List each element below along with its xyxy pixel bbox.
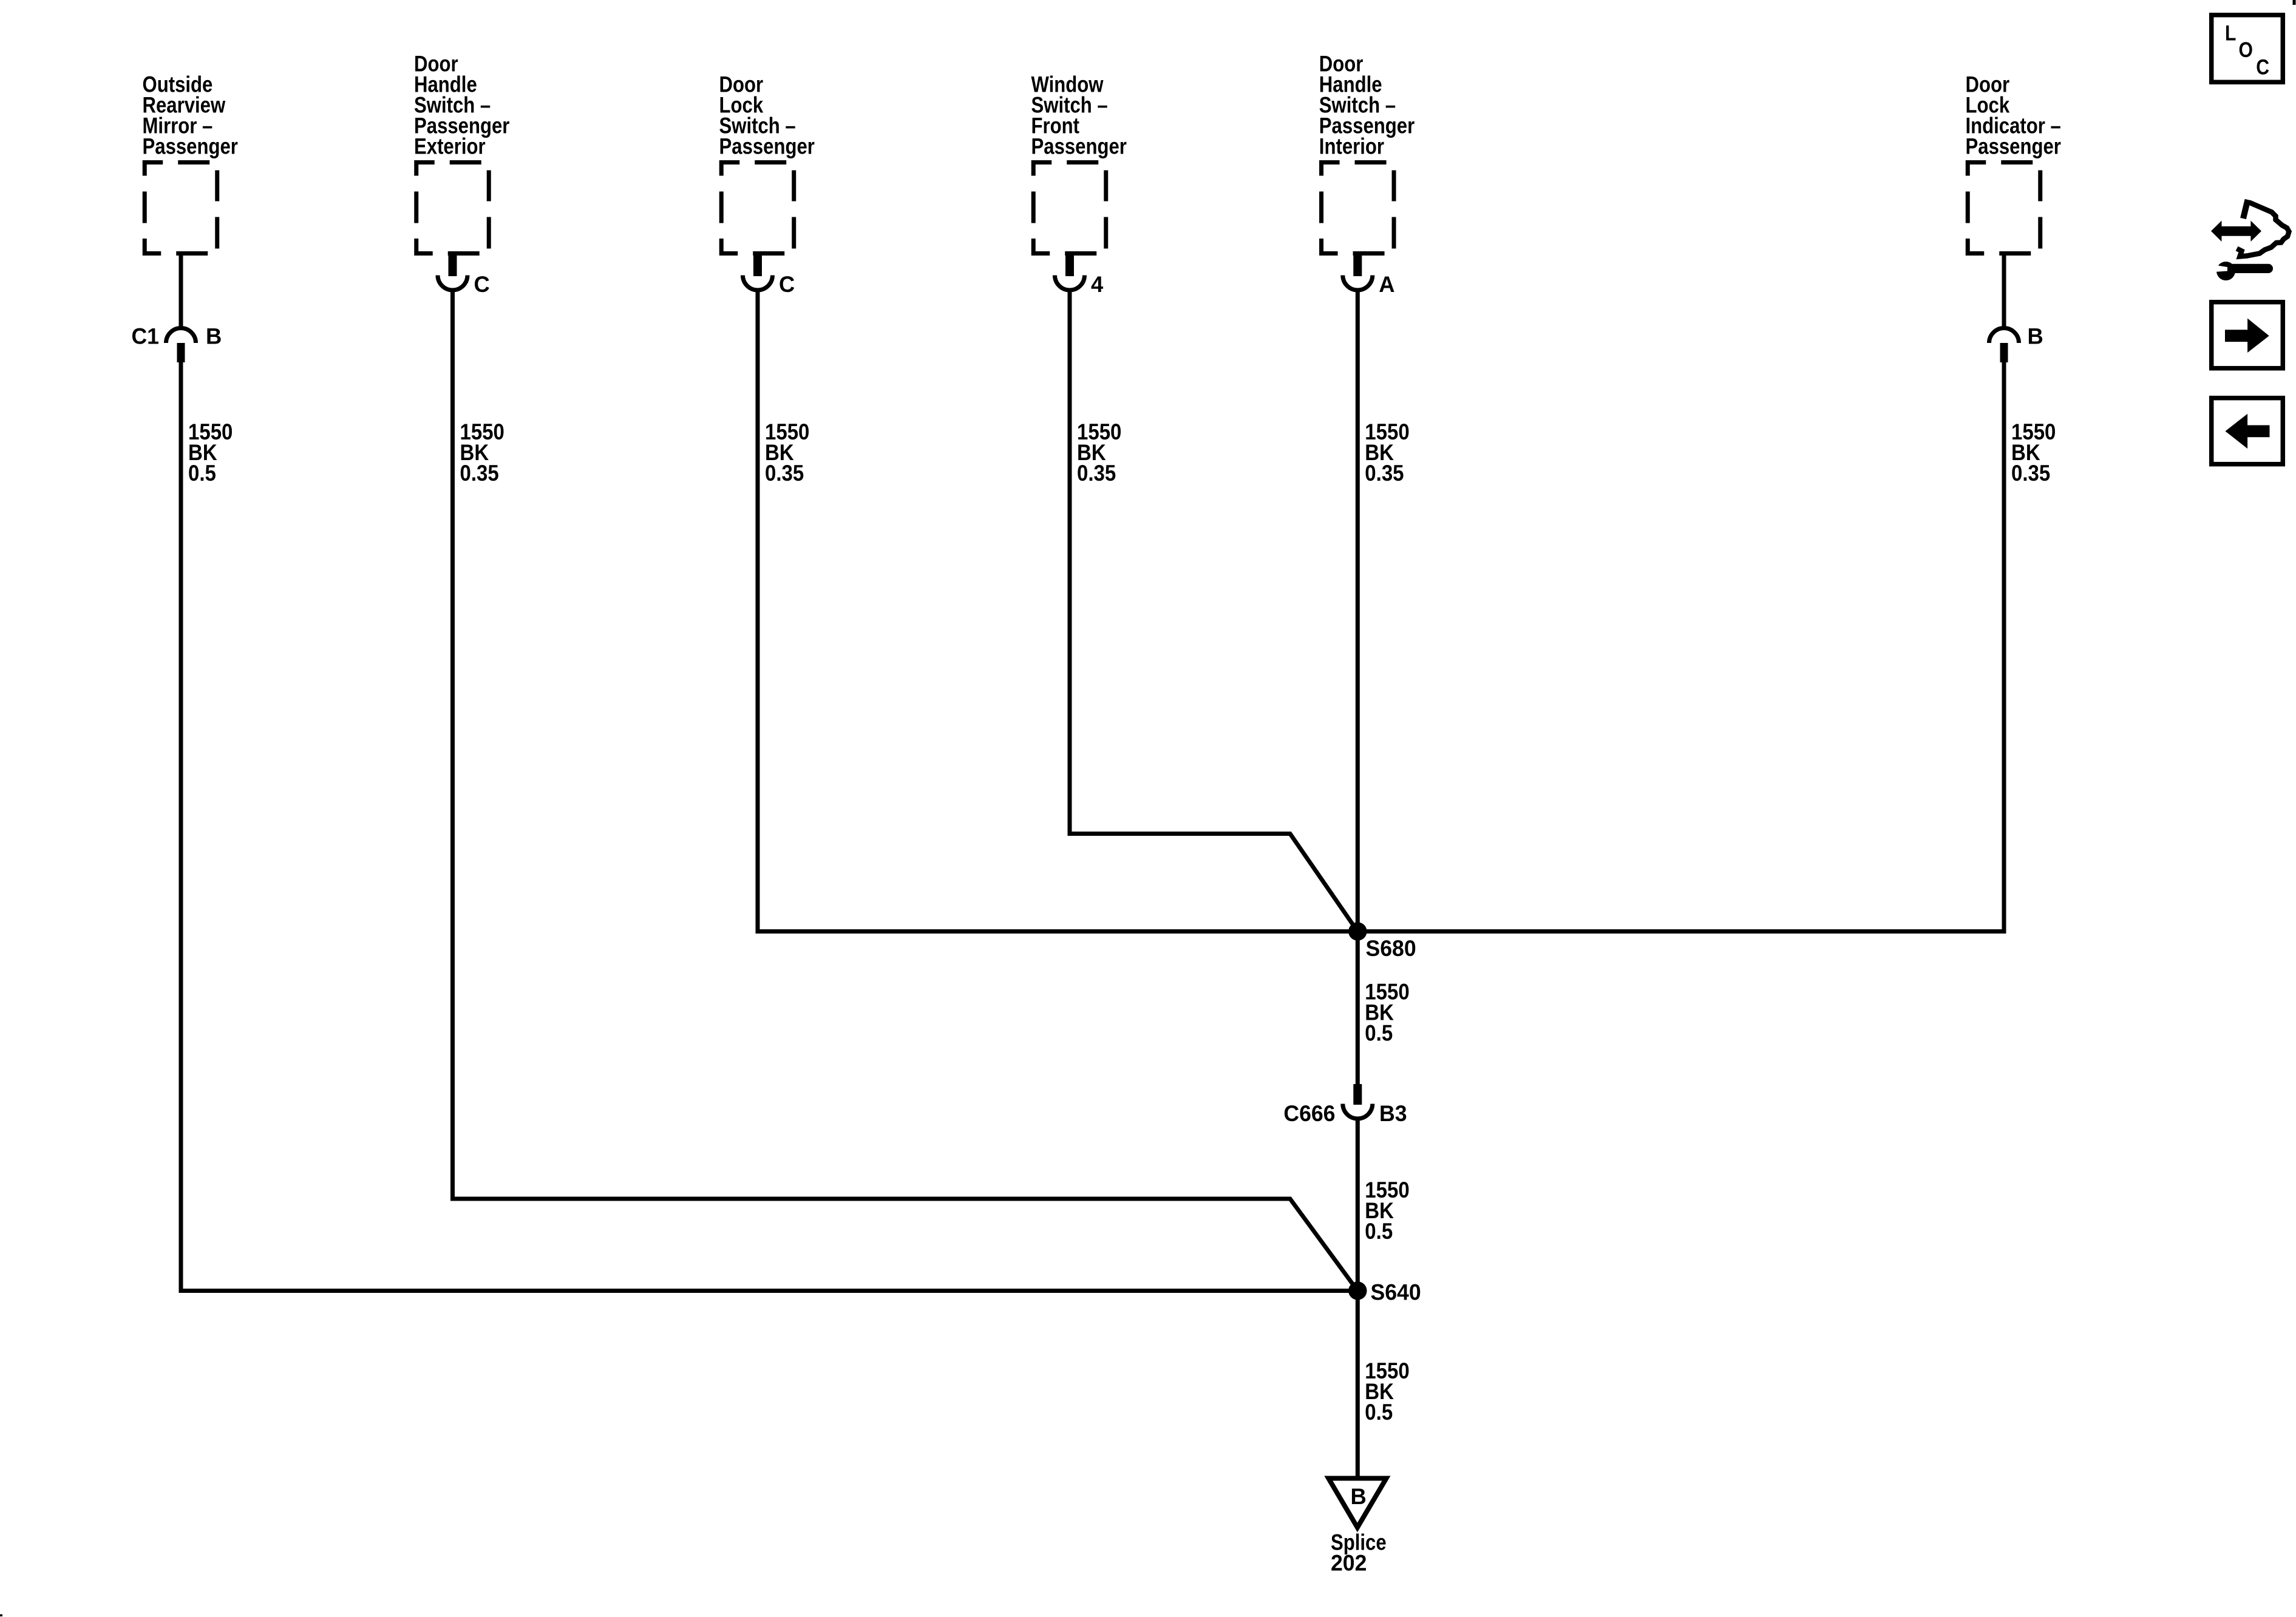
icon: connector test tool (double arrow, connector outline, wrench) <box>2211 200 2289 280</box>
connector label C1 <box>131 324 159 349</box>
icon: back arrow box <box>2212 398 2283 464</box>
svg-text:Interior: Interior <box>1319 134 1384 159</box>
icon: LOC box <box>2212 15 2283 83</box>
component box: Door Handle Switch - Passenger Exterior <box>416 163 489 254</box>
pin label C <box>779 272 795 297</box>
wire label 1550 BK 0.35 <box>2011 419 2056 444</box>
svg-text:4: 4 <box>1091 272 1104 297</box>
svg-text:C: C <box>474 272 490 297</box>
in-line connector C1 pin B (mirror) <box>166 328 196 363</box>
splice 202 triangle symbol pin B <box>1328 1479 1386 1528</box>
wire label 1550 BK 0.5 <box>1365 1178 1409 1202</box>
svg-text:B: B <box>1351 1483 1367 1509</box>
page corner mark bottom-left <box>0 1615 2 1617</box>
component box: Outside Rearview Mirror - Passenger <box>144 163 217 254</box>
svg-text:C666: C666 <box>1283 1100 1335 1126</box>
in-line connector pin B (indicator) <box>1989 328 2019 363</box>
svg-text:0.5: 0.5 <box>188 461 216 486</box>
wire: S640 down to splice triangle <box>1356 1291 1360 1476</box>
wire: S680 down to C666 <box>1356 932 1360 1085</box>
svg-text:0.5: 0.5 <box>1365 1400 1393 1425</box>
svg-text:0.35: 0.35 <box>460 461 499 486</box>
wire: indicator box to connector B <box>2002 254 2006 328</box>
svg-text:0.5: 0.5 <box>1365 1219 1393 1244</box>
pin label B3 <box>1379 1100 1407 1126</box>
wire: col2 vertical, corner, horizontal, diagonal into S640 <box>453 290 1358 1291</box>
label: Outside Rearview Mirror - Passenger <box>143 72 213 97</box>
svg-text:B: B <box>206 324 222 349</box>
label: Door Handle Switch - Passenger Exterior <box>414 52 458 76</box>
pin label B <box>206 324 222 349</box>
label S640 <box>1371 1280 1421 1305</box>
component box: Door Lock Switch - Passenger <box>721 163 794 254</box>
svg-text:B3: B3 <box>1379 1100 1407 1126</box>
connector label C666 <box>1283 1100 1335 1126</box>
connector pin C (Door Lock Switch) <box>743 252 773 291</box>
svg-text:C1: C1 <box>131 324 159 349</box>
svg-text:0.35: 0.35 <box>1365 461 1404 486</box>
component box: Door Lock Indicator - Passenger <box>1968 163 2040 254</box>
wire label 1550 BK 0.35 <box>765 419 809 444</box>
svg-text:S640: S640 <box>1371 1280 1421 1305</box>
wire: C666 down to S640 <box>1356 1119 1360 1291</box>
label: Door Lock Switch - Passenger <box>719 72 764 97</box>
wire: col3 vertical, corner, S680 horizontal across to col6 corner, col6 vertical <box>758 290 2004 932</box>
wire: mirror box to connector C1-B <box>179 254 183 328</box>
wire: col5 vertical into S680 <box>1356 290 1360 932</box>
connector pin 4 (Window Switch) <box>1055 252 1085 291</box>
label: Door Handle Switch - Passenger Interior <box>1319 52 1364 76</box>
svg-text:0.35: 0.35 <box>765 461 804 486</box>
svg-text:S680: S680 <box>1366 935 1416 961</box>
wire label 1550 BK 0.5 <box>1365 1358 1409 1383</box>
label S680 <box>1366 935 1416 961</box>
wire label 1550 BK 0.35 <box>460 419 504 444</box>
label Splice 202 <box>1331 1530 1387 1555</box>
wire: col4 vertical, corner, horizontal, diagonal into S680 <box>1070 290 1357 932</box>
svg-text:202: 202 <box>1331 1550 1367 1576</box>
label: Window Switch - Front Passenger <box>1031 72 1104 97</box>
svg-text:0.5: 0.5 <box>1365 1021 1393 1046</box>
svg-text:C: C <box>779 272 795 297</box>
splice S680 junction dot <box>1348 922 1367 940</box>
svg-text:O: O <box>2239 38 2253 62</box>
label: Door Lock Indicator - Passenger <box>1966 72 2010 97</box>
wire: col1 vertical down to S640 horizontal into S640 <box>181 362 1357 1291</box>
svg-text:Exterior: Exterior <box>414 134 486 159</box>
connector pin A (Door Handle Switch Interior) <box>1343 252 1373 291</box>
pin label 4 <box>1091 272 1104 297</box>
pin label B (in triangle) <box>1351 1483 1367 1509</box>
svg-text:0.35: 0.35 <box>2011 461 2050 486</box>
svg-text:A: A <box>1379 272 1394 297</box>
svg-text:0.35: 0.35 <box>1077 461 1116 486</box>
wire label 1550 BK 0.5 <box>1365 980 1409 1005</box>
component box: Door Handle Switch - Passenger Interior <box>1322 163 1394 254</box>
wire label 1550 BK 0.35 <box>1365 419 1409 444</box>
svg-text:Passenger: Passenger <box>1031 134 1127 159</box>
wire label 1550 BK 0.35 <box>1077 419 1121 444</box>
svg-text:L: L <box>2225 21 2236 45</box>
pin label A <box>1379 272 1394 297</box>
svg-text:Passenger: Passenger <box>719 134 815 159</box>
svg-text:C: C <box>2256 55 2269 79</box>
icon: forward arrow box <box>2212 302 2283 368</box>
svg-text:Passenger: Passenger <box>143 134 238 159</box>
pin label B <box>2028 324 2043 349</box>
pin label C <box>474 272 490 297</box>
component box: Window Switch - Front Passenger <box>1033 163 1106 254</box>
svg-text:Passenger: Passenger <box>1966 134 2061 159</box>
in-line connector C666 pin B3 <box>1343 1084 1373 1119</box>
splice S640 junction dot <box>1348 1281 1367 1300</box>
svg-text:B: B <box>2028 324 2043 349</box>
page corner mark top-right <box>2293 0 2296 5</box>
wire label 1550 BK 0.5 <box>188 419 233 444</box>
connector pin C (Door Handle Switch Exterior) <box>438 252 467 291</box>
